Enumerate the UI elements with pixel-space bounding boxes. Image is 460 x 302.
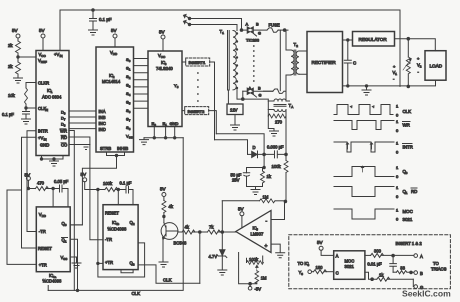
svg-text:0.030 µF: 0.030 µF (267, 145, 284, 150)
svg-text:DD: DD (42, 214, 47, 218)
svg-text:½CD4098: ½CD4098 (108, 227, 128, 232)
svg-text:25V: 25V (232, 178, 240, 183)
svg-text:8: 8 (301, 272, 303, 276)
svg-text:-TR: -TR (39, 229, 46, 234)
svg-text:GND: GND (40, 143, 49, 148)
svg-text:4: 4 (129, 93, 131, 97)
svg-text:SeekIC.com: SeekIC.com (402, 289, 451, 299)
svg-text:+: + (417, 56, 420, 61)
svg-text:4b: 4b (116, 222, 120, 226)
svg-text:4.7V: 4.7V (209, 254, 218, 259)
svg-text:IND: IND (99, 127, 106, 132)
svg-text:7k: 7k (209, 225, 214, 230)
svg-text:BC548: BC548 (174, 241, 187, 246)
svg-text:+: + (393, 64, 396, 69)
svg-text:3021: 3021 (403, 217, 413, 222)
svg-text:1: 1 (51, 90, 53, 94)
svg-text:3: 3 (308, 263, 310, 267)
svg-text:ADC 0804: ADC 0804 (42, 95, 62, 100)
svg-text:1: 1 (65, 240, 67, 244)
svg-text:1: 1 (396, 119, 399, 124)
svg-text:5V: 5V (317, 240, 324, 245)
svg-text:5V: 5V (160, 187, 167, 192)
svg-text:1: 1 (396, 104, 399, 109)
svg-text:B: B (258, 86, 261, 91)
svg-text:-: - (393, 76, 395, 81)
svg-text:INB: INB (99, 115, 106, 120)
svg-text:4k: 4k (169, 204, 174, 209)
svg-text:8: 8 (177, 85, 179, 89)
svg-text:10k: 10k (8, 93, 16, 98)
svg-text:0: 0 (396, 174, 399, 179)
svg-text:2: 2 (296, 44, 298, 48)
svg-text:0: 0 (396, 217, 399, 222)
svg-text:270: 270 (275, 120, 283, 125)
svg-text:7: 7 (64, 118, 66, 122)
svg-text:½CD4098: ½CD4098 (43, 279, 63, 284)
svg-text:+: + (265, 244, 268, 250)
svg-text:G: G (259, 94, 262, 98)
svg-text:IN: IN (45, 108, 48, 112)
svg-text:TRIACS: TRIACS (431, 267, 447, 272)
svg-text:470: 470 (37, 181, 45, 186)
svg-text:2: 2 (420, 65, 422, 69)
svg-text:8: 8 (129, 127, 131, 131)
svg-text:0: 0 (406, 171, 408, 175)
svg-text:1: 1 (406, 191, 408, 195)
svg-text:INTR: INTR (38, 129, 48, 134)
svg-text:5V: 5V (12, 28, 19, 33)
svg-text:INA: INA (99, 109, 106, 114)
svg-text:2: 2 (129, 76, 131, 80)
svg-text:MOC: MOC (403, 209, 413, 214)
svg-text:A: A (336, 254, 339, 259)
svg-text:5V: 5V (111, 28, 118, 33)
svg-text:TO: TO (433, 261, 439, 266)
svg-text:WR: WR (403, 123, 410, 128)
svg-text:-TR: -TR (105, 237, 112, 242)
svg-text:1: 1 (129, 68, 131, 72)
svg-text:TIC263: TIC263 (246, 38, 260, 43)
svg-text:8: 8 (64, 124, 66, 128)
svg-text:1: 1 (396, 141, 399, 146)
svg-text:2: 2 (133, 222, 135, 226)
svg-text:7: 7 (129, 119, 131, 123)
svg-text:0: 0 (396, 128, 399, 133)
svg-text:0.1 µF: 0.1 µF (99, 17, 112, 22)
svg-text:CC: CC (41, 54, 46, 58)
svg-text:2k: 2k (8, 64, 13, 69)
svg-text:G: G (258, 32, 261, 36)
svg-text:0.1 µF: 0.1 µF (120, 181, 132, 186)
svg-text:100k: 100k (103, 181, 113, 186)
svg-text:A: A (420, 254, 423, 259)
svg-text:RD: RD (411, 189, 417, 194)
svg-text:300: 300 (374, 249, 382, 254)
svg-text:6: 6 (64, 112, 66, 116)
svg-text:CLK: CLK (163, 278, 172, 283)
svg-text:CLKR: CLKR (38, 81, 49, 86)
svg-text:A: A (291, 105, 293, 109)
svg-text:5V: 5V (39, 28, 46, 33)
svg-text:IN: IN (44, 138, 47, 142)
svg-text:100k: 100k (272, 164, 282, 169)
svg-text:3: 3 (133, 263, 135, 267)
svg-text:1k: 1k (267, 174, 272, 179)
svg-text:RECTIFIER: RECTIFIER (312, 60, 337, 65)
svg-text:3: 3 (129, 85, 131, 89)
svg-text:5V: 5V (238, 207, 245, 212)
svg-text:SS: SS (129, 136, 133, 140)
svg-text:LM907: LM907 (251, 232, 264, 237)
svg-text:-: - (418, 69, 420, 74)
svg-text:DD: DD (113, 52, 118, 56)
svg-text:INSERT 1 & 2: INSERT 1 & 2 (396, 241, 423, 246)
svg-text:MC14514: MC14514 (102, 79, 121, 84)
svg-text:1: 1 (395, 72, 397, 76)
svg-text:5V: 5V (159, 30, 166, 35)
svg-text:-: - (266, 219, 268, 225)
svg-text:1: 1 (396, 185, 399, 190)
svg-text:REF: REF (41, 60, 47, 64)
svg-text:180: 180 (316, 265, 324, 270)
svg-text:0: 0 (396, 194, 399, 199)
svg-text:3021: 3021 (345, 264, 355, 269)
svg-text:5V: 5V (81, 172, 88, 177)
svg-text:INC: INC (99, 121, 106, 126)
svg-text:0: 0 (396, 150, 399, 155)
svg-text:INSERT2: INSERT2 (188, 109, 206, 114)
svg-text:1M: 1M (261, 276, 267, 281)
svg-text:100k: 100k (249, 257, 259, 262)
svg-text:FUSE: FUSE (269, 23, 280, 28)
svg-text:0.05 µF: 0.05 µF (54, 179, 69, 184)
svg-text:0.1 µF: 0.1 µF (2, 112, 14, 117)
svg-text:1: 1 (396, 208, 399, 213)
svg-text:4k: 4k (185, 225, 190, 230)
svg-text:1: 1 (396, 165, 399, 170)
svg-text:33: 33 (400, 266, 405, 271)
svg-text:REGULATOR: REGULATOR (359, 37, 388, 42)
svg-text:INSERT1: INSERT1 (189, 60, 207, 65)
svg-text:+TR: +TR (105, 260, 113, 265)
svg-text:CLK: CLK (132, 291, 141, 296)
svg-text:CLK: CLK (403, 109, 412, 114)
svg-text:6: 6 (129, 110, 131, 114)
svg-text:INHIB: INHIB (117, 146, 128, 151)
svg-text:B: B (256, 22, 259, 27)
svg-text:+TR: +TR (39, 263, 47, 268)
svg-text:2k: 2k (8, 43, 13, 48)
svg-text:RESET: RESET (38, 246, 52, 251)
svg-text:0: 0 (65, 223, 67, 227)
svg-text:IN: IN (60, 54, 63, 58)
svg-text:LOAD: LOAD (430, 64, 443, 69)
svg-text:SS: SS (63, 257, 67, 261)
svg-text:C: C (353, 61, 356, 66)
svg-text:0: 0 (129, 59, 131, 63)
svg-text:INTR: INTR (403, 145, 413, 150)
svg-text:5: 5 (129, 102, 131, 106)
svg-text:A: A (246, 22, 249, 27)
svg-text:B: B (420, 271, 423, 276)
svg-text:MOC: MOC (345, 259, 355, 264)
svg-text:0: 0 (396, 113, 399, 118)
svg-text:0.01 µF: 0.01 µF (367, 262, 382, 267)
svg-text:CC: CC (161, 55, 166, 59)
svg-text:C: C (336, 271, 339, 276)
svg-text:RESET: RESET (105, 211, 119, 216)
svg-text:74LS240: 74LS240 (156, 66, 173, 71)
svg-text:-5V: -5V (255, 287, 262, 292)
svg-text:12V: 12V (230, 108, 238, 113)
svg-text:D: D (253, 145, 256, 150)
svg-text:GND: GND (170, 121, 179, 126)
svg-text:STRB: STRB (100, 146, 111, 151)
svg-text:1: 1 (222, 31, 224, 35)
